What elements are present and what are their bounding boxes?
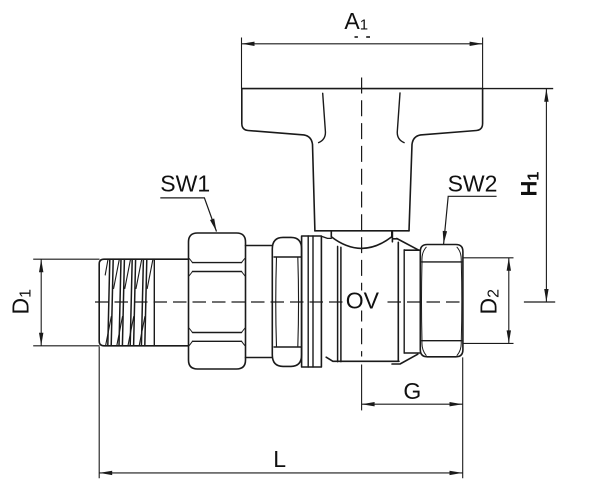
arrow D2 top — [507, 258, 511, 271]
H1 reference line — [524, 301, 555, 303]
vertical centerline — [361, 78, 363, 357]
svg-text:OV: OV — [346, 288, 380, 314]
body dome arc — [331, 237, 392, 249]
L dimension line — [99, 472, 462, 474]
A1 dimension line — [242, 43, 483, 45]
G dimension line — [362, 403, 463, 405]
SW2 leader — [444, 196, 497, 244]
D2 extension lines — [463, 258, 514, 344]
D2 dimension line — [508, 258, 510, 344]
arrow D2 bottom — [507, 330, 511, 343]
stem boss — [331, 231, 392, 237]
thread runout line — [153, 259, 155, 346]
handle bar outline — [242, 89, 483, 231]
svg-text:G: G — [403, 378, 421, 404]
SW1 leader — [160, 198, 216, 232]
body block face — [338, 246, 341, 361]
svg-text:D2: D2 — [476, 289, 503, 315]
svg-text:H1: H1 — [517, 172, 543, 197]
arrow SW1 leader — [210, 219, 217, 232]
svg-text:D1: D1 — [8, 289, 35, 315]
L extension lines — [99, 347, 463, 479]
arrow G left — [362, 402, 375, 406]
svg-text:SW2: SW2 — [448, 171, 498, 197]
A1 extension lines — [242, 38, 483, 89]
body top-right shoulder — [392, 232, 418, 250]
handle mold line right — [397, 93, 404, 143]
top-left chamfer near collar — [321, 236, 331, 238]
arrow D1 top — [39, 259, 43, 272]
arrow A1 left — [242, 42, 255, 46]
arrow SW2 leader — [443, 231, 447, 244]
thread flank diagonals lower — [106, 317, 145, 346]
svg-text:L: L — [273, 446, 286, 472]
dots under A1 — [355, 36, 358, 38]
arrow L left — [99, 471, 112, 475]
svg-text:SW1: SW1 — [160, 171, 210, 197]
thread flank diagonals upper — [105, 259, 153, 288]
handle mold line left — [319, 93, 326, 142]
arrow A1 right — [470, 42, 483, 46]
hex nut SW1 — [189, 233, 246, 369]
right neck — [404, 250, 420, 353]
H1 extension line (handle top) — [483, 88, 554, 90]
arrow G right — [450, 402, 463, 406]
G extension line left — [361, 365, 363, 411]
H1 dimension line — [545, 89, 547, 302]
svg-text:A1: A1 — [344, 8, 368, 34]
hex nut SW2 — [420, 245, 463, 357]
text clearance for OV — [344, 291, 382, 311]
arrow L right — [450, 471, 463, 475]
threaded male end outline — [99, 259, 188, 346]
body right rim — [403, 250, 405, 353]
arrow H1 bottom — [544, 289, 548, 302]
thread crest lines — [108, 259, 147, 346]
collar rings — [302, 236, 322, 367]
arrow H1 top — [544, 89, 548, 102]
D1 dimension line — [40, 259, 42, 346]
horizontal centerline — [95, 301, 463, 303]
body bottom-right shoulder — [392, 354, 418, 364]
stem bottom — [315, 230, 409, 232]
body right edge — [397, 242, 399, 361]
body hex (left octagon section) — [272, 237, 301, 366]
D1 extension lines — [33, 259, 99, 346]
left neck — [246, 246, 273, 358]
body bottom edge — [326, 357, 399, 361]
arrow D1 bottom — [39, 333, 43, 346]
